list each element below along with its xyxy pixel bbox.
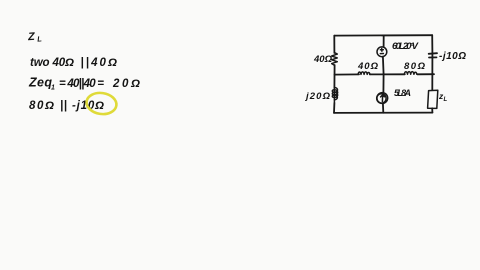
yellow highlight circle around 10Ω — [85, 91, 118, 116]
svg-text:40Ω: 40Ω — [357, 61, 379, 72]
wire: right edge bottom segment — [431, 108, 433, 112]
wire: middle vertical bottom segment — [382, 103, 384, 112]
svg-text:||: || — [60, 100, 67, 112]
wire: left edge top segment — [333, 36, 335, 53]
svg-text:40Ω: 40Ω — [313, 54, 333, 65]
svg-text:80Ω: 80Ω — [404, 61, 426, 72]
wire: top — [334, 34, 432, 36]
svg-text:two 40Ω: two 40Ω — [30, 57, 74, 69]
svg-text:1: 1 — [51, 85, 55, 92]
wire: middle horizontal right of R3 — [417, 73, 434, 75]
inductor L1 j20Ω (left edge, coil) — [332, 88, 337, 100]
annotation line: two 40Ω ||40Ω — [30, 57, 117, 69]
wire: bottom — [334, 112, 432, 114]
annotation line: 80Ω || -j10Ω — [29, 100, 104, 112]
resistor R3 80Ω (middle wire, horizontal zigzag) — [404, 72, 417, 75]
current source I1 (circle with up arrow) — [377, 93, 388, 104]
resistor R1 40Ω (left edge, vertical zigzag) — [332, 53, 338, 66]
resistor R2 40Ω (middle wire, horizontal zigzag) — [358, 72, 370, 75]
wire: left edge bottom segment — [333, 103, 335, 113]
svg-text:L: L — [444, 97, 448, 103]
svg-text:60L20°V: 60L20°V — [392, 41, 419, 52]
wire: middle vertical between sources — [382, 57, 385, 93]
capacitor C1 -j10Ω (right edge) — [429, 52, 437, 55]
svg-text:20Ω: 20Ω — [112, 78, 140, 90]
annotation Z_L heading — [27, 30, 43, 44]
wire: middle horizontal left of R2 — [335, 73, 360, 75]
wire: right edge top segment — [431, 35, 433, 53]
svg-text:5L8A: 5L8A — [394, 88, 411, 98]
load ZL (box on right edge) — [428, 90, 438, 108]
label 60∠20°V (V1) — [392, 41, 419, 52]
wire: middle horizontal between R2 and node — [370, 73, 405, 75]
wire: right edge middle segment — [431, 58, 433, 91]
annotation line: Zeq1 = 40||40 = 20Ω — [28, 76, 140, 92]
svg-text:Zeq: Zeq — [28, 76, 52, 90]
voltage source V1 (circle with +/-) — [377, 47, 387, 57]
svg-text:j20Ω: j20Ω — [304, 91, 331, 102]
wire: middle vertical top segment — [383, 35, 385, 47]
label 5∠8A (I1) — [394, 88, 411, 98]
wire: left edge middle segment — [333, 65, 335, 88]
svg-text:= 40||40 =: = 40||40 = — [59, 78, 104, 90]
svg-text:80Ω: 80Ω — [29, 100, 54, 112]
svg-text:-j10Ω: -j10Ω — [439, 51, 466, 62]
svg-text:||40Ω: ||40Ω — [81, 57, 118, 69]
